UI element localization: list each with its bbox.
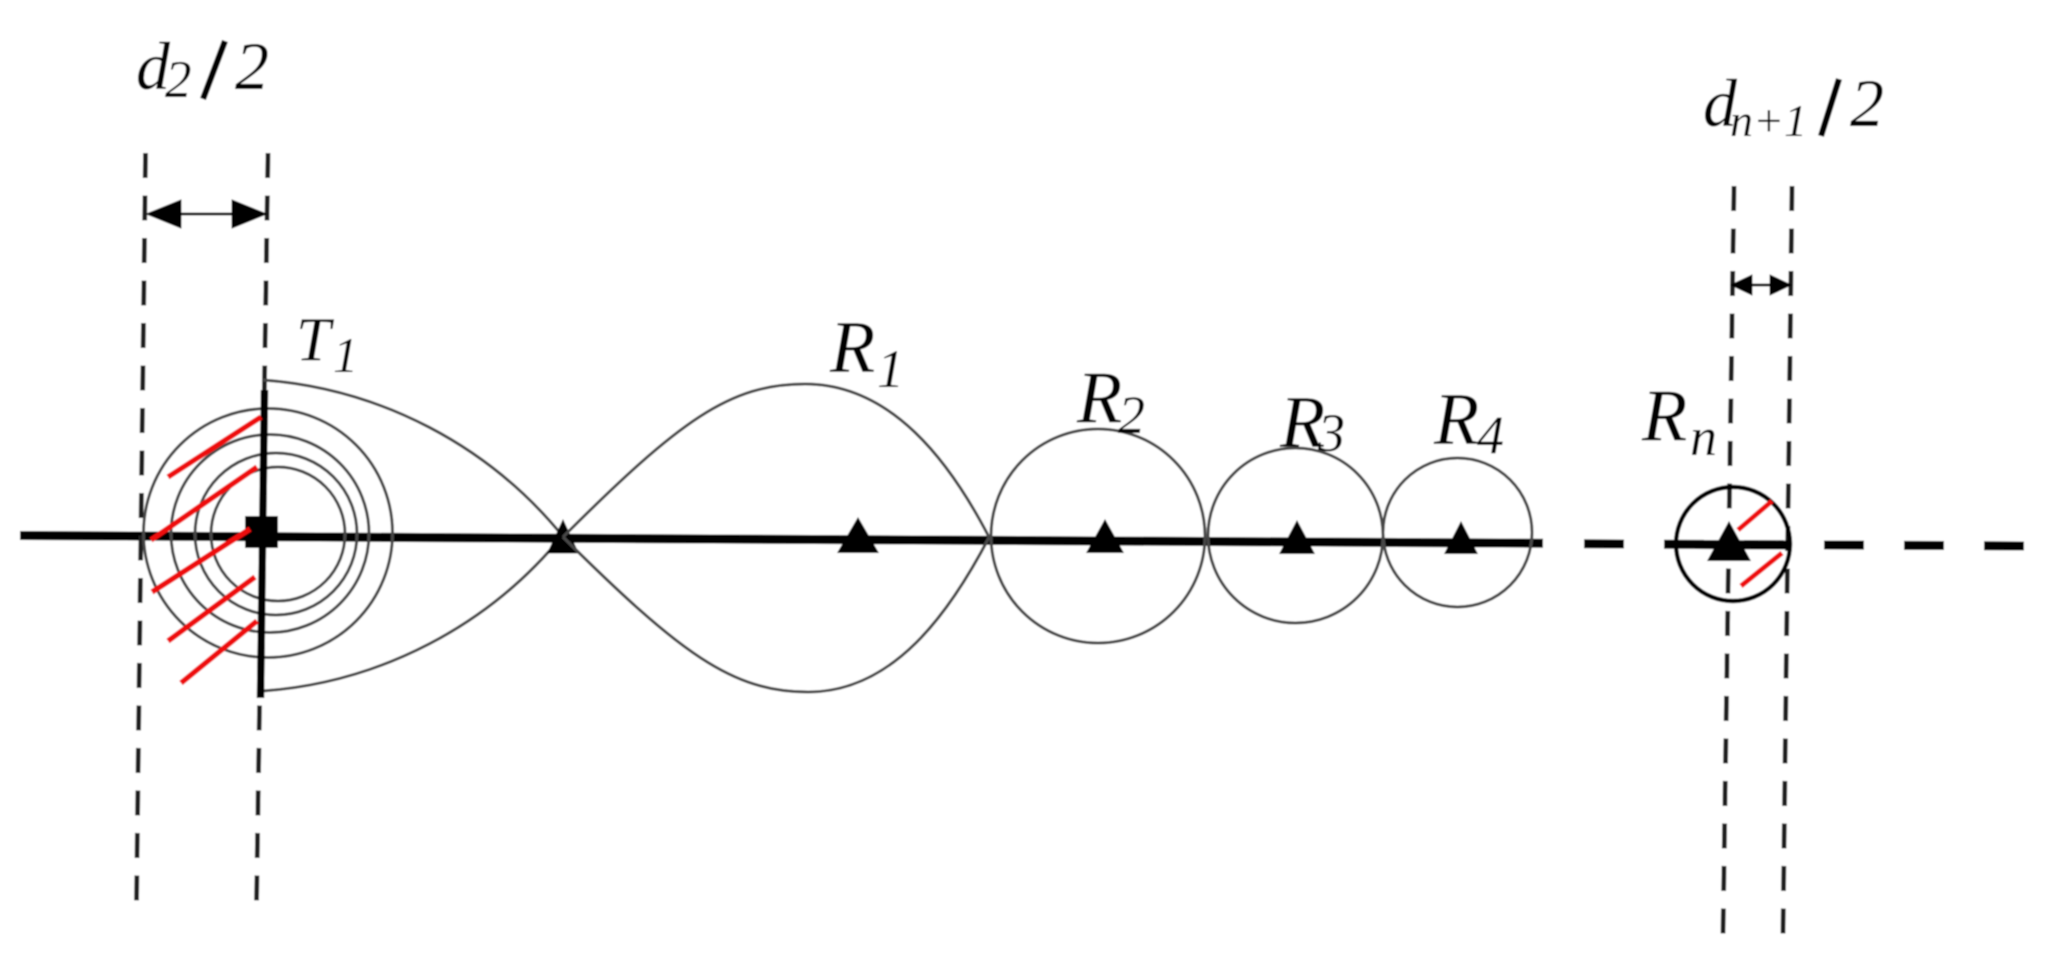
node triangle at lens crossing <box>547 519 579 554</box>
svg-text:n+1: n+1 <box>1730 95 1807 146</box>
svg-text:R: R <box>1641 376 1687 458</box>
transmitter T1 antenna vertical line <box>261 390 265 698</box>
red hatch line 1 in Rn <box>1738 501 1772 530</box>
dimension dashed line d2 right <box>257 153 269 904</box>
transmitter T1 square marker <box>245 516 278 548</box>
label T1 <box>296 307 358 384</box>
R1 lens upper arc <box>563 384 989 537</box>
red hatch line 1 at T1 <box>168 417 261 477</box>
receiver triangle R1 <box>837 517 879 553</box>
wavefront circle C1 <box>144 409 393 658</box>
dimension arrow d2/2 <box>147 200 267 228</box>
receiver circle R3 <box>1208 448 1383 623</box>
R1 lens lower arc <box>563 537 989 692</box>
label dn+1/2 <box>1703 65 1884 146</box>
wavefront circle C3 <box>195 453 357 615</box>
main horizontal axis (solid segment) <box>20 536 1543 544</box>
svg-text:R: R <box>1433 379 1479 461</box>
red hatch line 3 at T1 <box>152 529 250 592</box>
red hatch line 5 at T1 <box>181 621 257 683</box>
svg-text:T: T <box>296 307 335 375</box>
dimension dashed line d2 left <box>137 153 146 904</box>
svg-text:2: 2 <box>235 28 269 104</box>
receiver triangle Rn <box>1707 521 1751 561</box>
receiver triangle R2 <box>1086 519 1124 553</box>
svg-text:1: 1 <box>877 339 904 399</box>
svg-text:2: 2 <box>1118 385 1145 445</box>
main horizontal axis dashed continuation <box>1584 544 2035 546</box>
label R3 <box>1279 382 1345 464</box>
T1 beam lens upper arc <box>263 380 563 537</box>
receiver triangle R4 <box>1444 521 1478 554</box>
svg-text:1: 1 <box>333 327 358 383</box>
T1 beam lens lower arc <box>263 535 563 691</box>
red hatch line 4 at T1 <box>168 577 255 641</box>
label Rn <box>1641 376 1717 467</box>
red hatch line 2 in Rn <box>1741 553 1782 586</box>
red hatch line 2 at T1 <box>151 467 257 540</box>
svg-text:4: 4 <box>1477 405 1504 465</box>
svg-text:2: 2 <box>1850 65 1884 141</box>
label R2 <box>1076 358 1145 446</box>
svg-text:3: 3 <box>1317 403 1345 463</box>
svg-text:R: R <box>1076 358 1122 440</box>
dimension dashed line dn+1 right <box>1783 186 1792 936</box>
dimension dashed line dn+1 left <box>1723 186 1734 936</box>
svg-text:n: n <box>1690 407 1717 467</box>
receiver circle R2 <box>991 429 1205 643</box>
receiver circle R4 <box>1383 458 1532 607</box>
label R4 <box>1433 379 1504 465</box>
svg-text:2: 2 <box>165 51 192 109</box>
wavefront circle C4 <box>211 467 345 601</box>
receiver triangle R3 <box>1279 520 1315 554</box>
label R1 <box>829 307 904 399</box>
wavefront circle C2 <box>171 435 369 633</box>
receiver circle Rn <box>1676 487 1790 601</box>
svg-text:R: R <box>829 307 875 389</box>
label d2/2 <box>136 28 269 109</box>
axis dash segment through Rn <box>1695 540 1788 550</box>
dimension arrow dn+1/2 <box>1731 275 1791 295</box>
